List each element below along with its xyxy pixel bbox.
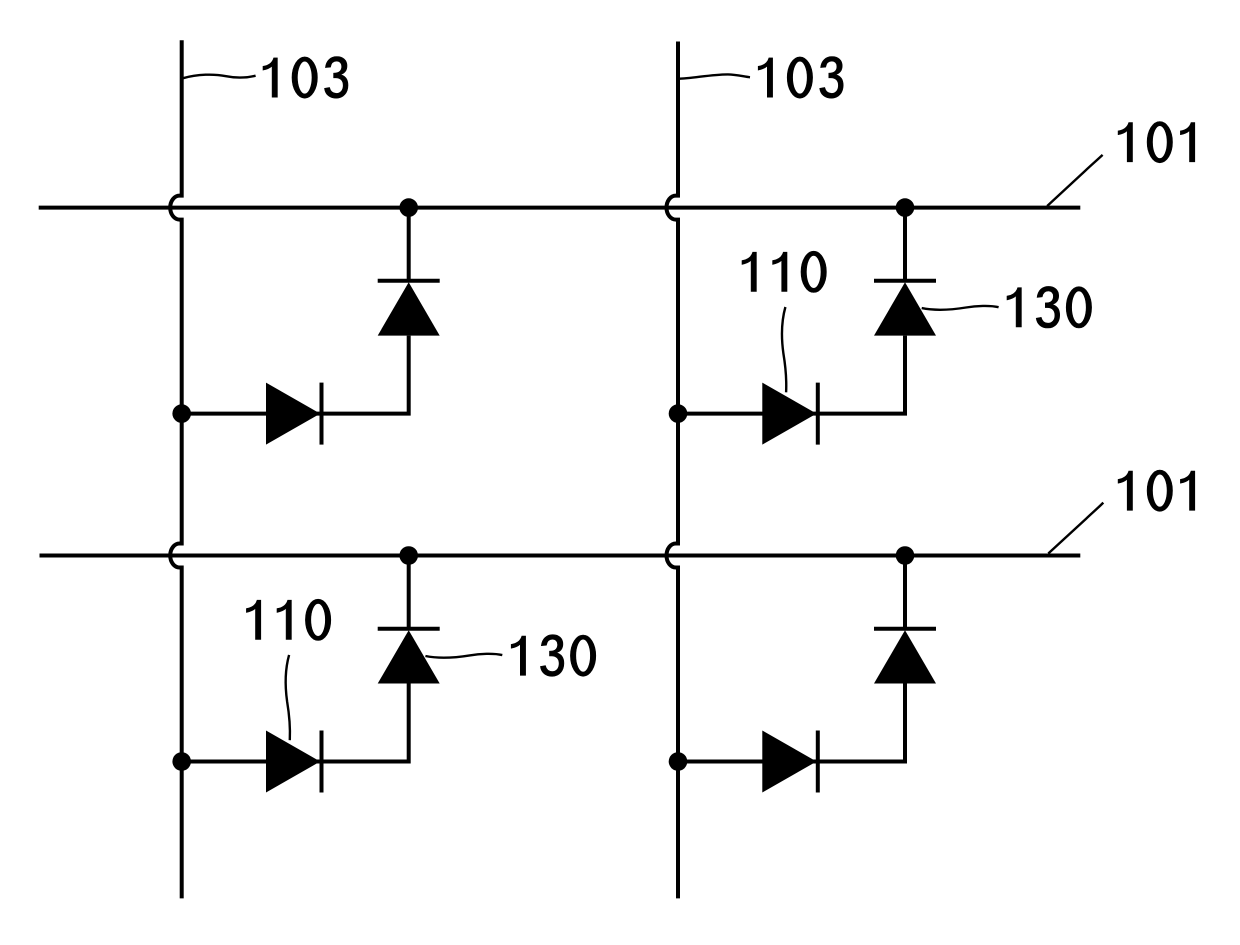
wire corner segment (cell BL) — [182, 684, 409, 762]
label 101 (row 1) — [1118, 122, 1195, 163]
LED D130 cathode bar (cell BL) — [378, 627, 440, 631]
diode D110 cathode bar (cell TL) — [320, 383, 324, 445]
wire cathode branch (cell BL) — [407, 556, 411, 630]
wire corner segment (cell TR) — [678, 336, 905, 414]
label 110 (cell BL) — [246, 599, 330, 640]
node dot on row 1 (cell TL) — [399, 198, 418, 217]
wire row line 101 (bottom scan line) — [40, 554, 1081, 558]
label 103 (left column) — [263, 57, 348, 99]
LED D130 cathode bar (cell TR) — [874, 279, 936, 283]
LED D130 cathode bar (cell TL) — [378, 279, 440, 283]
LED D130 triangle (cell BR) — [874, 630, 936, 683]
leader line for label 101 row 2 — [1048, 503, 1103, 554]
label 101 (row 2) — [1118, 470, 1195, 511]
wire column line 103 (right data line, with crossover hops) — [667, 42, 679, 899]
diode D110 triangle (cell TR) — [762, 383, 816, 445]
LED D130 cathode bar (cell BR) — [874, 627, 936, 631]
diode D110 triangle (cell BR) — [762, 731, 816, 793]
label 110 (cell TR) — [742, 251, 826, 292]
diode D110 cathode bar (cell BL) — [320, 731, 324, 793]
node dot on row 2 (cell BL) — [399, 546, 418, 565]
wire cathode branch (cell TL) — [407, 208, 411, 282]
label 130 (cell BL) — [511, 635, 596, 677]
node dot on column (cell TL) — [172, 404, 191, 423]
node dot on column (cell BL) — [172, 752, 191, 771]
diode D110 triangle (cell TL) — [266, 383, 320, 445]
wire corner segment (cell TL) — [182, 336, 409, 414]
LED D130 triangle (cell TL) — [378, 282, 440, 335]
label 130 (cell TR) — [1007, 286, 1092, 328]
diode D110 cathode bar (cell TR) — [816, 383, 820, 445]
diode D110 triangle (cell BL) — [266, 731, 320, 793]
node dot on row 1 (cell TR) — [896, 198, 915, 217]
node dot on column (cell BR) — [669, 752, 688, 771]
wire corner segment (cell BR) — [678, 684, 905, 762]
wire row line 101 (top scan line) — [39, 206, 1081, 210]
label 103 (right column) — [758, 57, 843, 99]
wire cathode branch (cell BR) — [903, 556, 907, 630]
node dot on row 2 (cell BR) — [896, 546, 915, 565]
leader line for label 110 (cell TR) — [782, 307, 786, 392]
leader line for label 130 (cell TR) — [922, 306, 999, 310]
diode D110 cathode bar (cell BR) — [816, 731, 820, 793]
LED D130 triangle (cell BL) — [378, 630, 440, 683]
leader line for label 103 left — [183, 75, 256, 79]
wire column line 103 (left data line, with crossover hops) — [170, 40, 182, 898]
leader line for label 101 row 1 — [1047, 155, 1102, 206]
node dot on column (cell TR) — [669, 404, 688, 423]
leader line for label 103 right — [678, 74, 750, 78]
LED D130 triangle (cell TR) — [874, 282, 936, 335]
wire cathode branch (cell TR) — [903, 208, 907, 282]
leader line for label 110 (cell BL) — [286, 655, 290, 740]
leader line for label 130 (cell BL) — [425, 654, 502, 658]
